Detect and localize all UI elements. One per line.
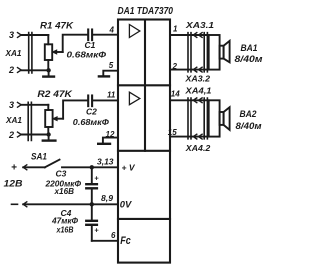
node 2 (lower XA1 contact 2 label and arrow) (8, 130, 21, 140)
svg-text:R1 47K: R1 47K (40, 21, 74, 32)
speaker BA2 (209, 100, 230, 136)
ground (below R1) (43, 70, 54, 76)
svg-text:XA4.2: XA4.2 (185, 143, 211, 153)
svg-text:х16В: х16В (56, 226, 74, 235)
junction dot D (0V / C3 / C4) (90, 202, 94, 206)
wire pin 5 to ground (103, 71, 118, 76)
svg-text:1: 1 (173, 25, 178, 34)
op-amp DA1 divider amp2/power (118, 150, 170, 152)
op-amp U1 outer box (DA1) (118, 20, 170, 263)
op-amp DA1 internal column divider (144, 20, 146, 151)
wire pin 1 to BA1 (170, 34, 209, 36)
svg-text:2: 2 (8, 65, 14, 75)
node 2 (upper XA1 contact 2 label and arrow) (8, 65, 21, 75)
node + terminal (11, 163, 27, 174)
svg-text:8/40м: 8/40м (236, 121, 262, 131)
wire C4 to pin 6 (92, 240, 118, 242)
svg-text:х16В: х16В (53, 187, 74, 196)
contact arrows XA4.1 (193, 98, 202, 103)
svg-text:0.68мкФ: 0.68мкФ (73, 118, 110, 127)
svg-text:3: 3 (9, 30, 14, 40)
resistor R1 (potentiometer) (45, 35, 63, 70)
contact arrows XA3.2 (193, 67, 202, 72)
svg-text:0.68мкФ: 0.68мкФ (67, 51, 107, 60)
contact arrows XA3.1 (193, 33, 202, 38)
svg-text:5: 5 (109, 61, 114, 70)
svg-text:R2 47K: R2 47K (37, 89, 73, 100)
capacitor C4 (electrolytic) (86, 204, 99, 241)
svg-text:8,9: 8,9 (101, 194, 114, 203)
capacitor C1 (88, 30, 92, 41)
svg-text:12В: 12В (4, 179, 24, 189)
svg-text:XA3.1: XA3.1 (185, 20, 215, 30)
svg-text:C1: C1 (85, 40, 96, 50)
svg-text:SA1: SA1 (31, 152, 47, 162)
contact arrows XA4.2 (193, 134, 202, 139)
node 3 (lower XA1 contact 3 label and arrow) (9, 100, 21, 110)
svg-text:15: 15 (168, 128, 177, 137)
svg-text:4: 4 (109, 26, 115, 35)
connector XA1 (lower pair of lines) (28, 102, 31, 140)
connector XA3 line pair 2 (204, 33, 207, 72)
node 3 (upper XA1 contact 3 label and arrow) (9, 30, 21, 40)
amplifier triangle 1 (129, 25, 139, 38)
svg-text:BA1: BA1 (241, 43, 258, 53)
svg-text:C3: C3 (56, 169, 67, 179)
connector XA3 line pair 1 (188, 33, 191, 72)
svg-text:DA1 TDA7370: DA1 TDA7370 (118, 5, 174, 17)
svg-text:XA1: XA1 (5, 48, 22, 58)
resistor R2 (potentiometer) (45, 105, 63, 135)
svg-text:XA3.2: XA3.2 (184, 73, 210, 83)
svg-text:+ V: + V (122, 162, 136, 172)
wire R2 wiper riser to C2 (63, 100, 87, 118)
wire C2 to pin 11 (93, 99, 118, 101)
svg-text:8/40м: 8/40м (235, 54, 263, 64)
switch SA1 (31, 152, 60, 168)
connector XA4 line pair 2 (204, 98, 207, 139)
svg-text:+: + (94, 174, 99, 183)
wire R1 wiper riser to C1 (63, 35, 88, 52)
wire SA1 to pin 3,13 (62, 166, 118, 168)
svg-text:14: 14 (171, 90, 180, 99)
svg-text:47мкФ: 47мкФ (51, 217, 79, 226)
ground (pin 5) (99, 75, 109, 77)
wire + terminal to SA1 (23, 166, 45, 168)
wire pin 2 to BA1 (170, 69, 209, 71)
wire pin 15 to BA2 (170, 136, 209, 138)
svg-text:3: 3 (9, 100, 14, 110)
svg-text:XA1: XA1 (5, 115, 22, 125)
wire XA1.2 lower to ground junction (21, 134, 48, 136)
svg-text:11: 11 (107, 91, 116, 100)
speaker BA1 (209, 35, 230, 70)
wire − terminal to pin 8,9 (23, 203, 118, 205)
wire XA1.3 to R1 top (21, 34, 48, 36)
op-amp DA1 divider amp1/amp2 (118, 84, 170, 86)
connector XA1 (upper pair of lines) (29, 33, 32, 74)
junction dot A (R1 bottom / XA1.2 / ground) (46, 68, 50, 72)
wire C1 to pin 4 (93, 34, 118, 36)
svg-text:C2: C2 (86, 107, 97, 117)
ground (pin 12) (98, 143, 110, 145)
node − terminal (12, 202, 27, 207)
junction dot B (R2 bottom / XA1.2 / ground) (46, 132, 50, 136)
capacitor C3 (electrolytic) (86, 167, 99, 204)
svg-text:0V: 0V (120, 199, 133, 209)
svg-text:BA2: BA2 (240, 109, 257, 119)
svg-text:Fc: Fc (120, 235, 131, 247)
svg-text:6: 6 (111, 231, 116, 240)
wire XA1.2 to ground junction (21, 69, 48, 71)
ground (below R2) (43, 135, 56, 141)
connector XA4 line pair 1 (188, 98, 191, 139)
wire pin 14 to BA2 (170, 99, 209, 101)
svg-text:+: + (11, 163, 17, 174)
svg-text:3,13: 3,13 (97, 158, 114, 167)
junction dot C (+V / C3) (90, 165, 94, 169)
amplifier triangle 2 (129, 92, 139, 105)
capacitor C2 (88, 96, 92, 107)
svg-text:2: 2 (8, 130, 14, 140)
svg-text:+: + (94, 226, 99, 235)
wire XA1.3 lower to R2 top (21, 104, 48, 106)
svg-text:XA4,1: XA4,1 (184, 86, 211, 96)
wire pin 12 to ground (103, 138, 118, 143)
op-amp DA1 divider above Fc (118, 218, 170, 220)
